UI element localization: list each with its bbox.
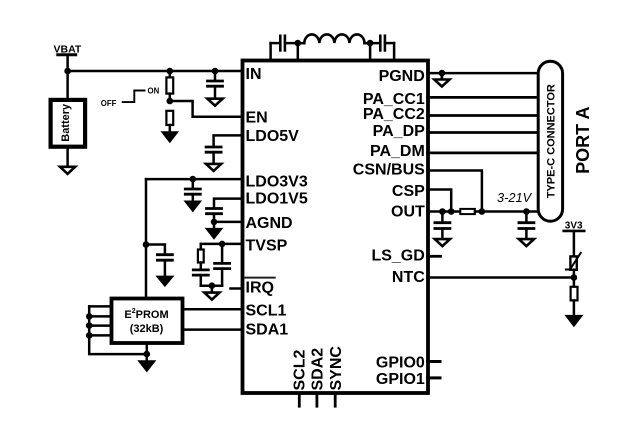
- wire C6 to bottom rail: [200, 275, 203, 286]
- ground (open) at PGND: [434, 80, 449, 87]
- resistor R2: [166, 111, 173, 125]
- ground (open) below battery: [60, 167, 75, 174]
- wire NTC body to junction: [573, 270, 576, 287]
- svg-text:TVSP: TVSP: [246, 237, 288, 254]
- svg-text:LDO1V5: LDO1V5: [246, 190, 308, 207]
- wire top stub left outer: [269, 43, 272, 60]
- ground (filled) below EEPROM: [138, 361, 155, 372]
- svg-text:AGND: AGND: [246, 215, 293, 232]
- wire top rail mid-left: [286, 42, 304, 45]
- wire R5 to ground: [573, 300, 576, 315]
- svg-text:(32kB): (32kB): [130, 323, 164, 335]
- svg-text:LDO5V: LDO5V: [246, 128, 300, 145]
- wire left vertical rail LDO3V3 to EEPROM: [145, 179, 148, 297]
- wire PGND ground stem: [440, 73, 443, 78]
- svg-text:LS_GD: LS_GD: [371, 247, 424, 264]
- wire NTC pin to thermistor: [428, 276, 574, 279]
- wire R3 to cap C6: [200, 263, 203, 269]
- wire R2 bottom to ground: [169, 125, 172, 131]
- wire C2 to ground: [212, 152, 215, 162]
- junction EEPROM tie 4: [86, 332, 93, 339]
- svg-text:OFF: OFF: [101, 99, 117, 108]
- junction AGND: [211, 219, 218, 226]
- ground (filled) below R5: [565, 315, 582, 326]
- wire TVSP bottom rail: [201, 284, 222, 287]
- svg-text:PORT A: PORT A: [573, 107, 593, 174]
- wire LDO1V5 pin to cap: [214, 199, 243, 208]
- capacitor C3 at LDO3V3: [185, 189, 200, 194]
- wire battery top to rail: [66, 71, 69, 98]
- junction LDO3V3 cap: [190, 176, 197, 183]
- wire EEPROM pin stub 3: [89, 324, 111, 327]
- wire EEPROM pin stub 4: [89, 334, 111, 337]
- capacitor C11 at OUT: [519, 223, 534, 229]
- wire SCL1: [183, 308, 243, 311]
- junction divider top at rail: [167, 68, 174, 75]
- wire TVSP ground stem: [211, 286, 214, 291]
- ground (open) below TVSP network: [204, 293, 219, 300]
- wire CSN/BUS to OUT rail: [428, 171, 482, 212]
- op-amp U1 main IC body: [243, 61, 429, 394]
- wire OUT cap1 stem: [441, 212, 444, 222]
- junction divider mid: [167, 98, 174, 105]
- ground (filled) at AGND: [206, 228, 223, 239]
- wire EEPROM pin stub 2: [89, 315, 111, 318]
- junction IN cap: [212, 68, 219, 75]
- ground (open) below C10: [435, 239, 450, 246]
- ground (filled) below C3: [185, 201, 202, 212]
- wire OUT rail right: [475, 210, 537, 213]
- svg-text:PA_DP: PA_DP: [373, 123, 425, 140]
- wire LDO3V3 cap stem: [192, 179, 195, 188]
- wire PA_DP: [428, 131, 538, 134]
- wire AGND stem: [213, 222, 216, 228]
- junction NTC: [571, 274, 578, 281]
- wire top stub left inner: [297, 43, 300, 60]
- junction VBAT: [64, 68, 71, 75]
- capacitor C5 at LDO1V5: [207, 209, 222, 214]
- ground (open) below C11: [519, 239, 534, 246]
- thermistor RT1 (NTC): [566, 253, 581, 270]
- wire top stub right inner: [369, 43, 372, 60]
- wire VBAT vertical to main rail: [66, 56, 69, 71]
- svg-text:ON: ON: [148, 87, 160, 96]
- wire C3 to ground: [192, 194, 195, 200]
- wire C11 to ground: [525, 229, 528, 238]
- svg-text:GPIO0: GPIO0: [376, 354, 425, 371]
- svg-text:EN: EN: [246, 110, 268, 127]
- wire R1 to junction: [169, 94, 172, 101]
- wire EEPROM left tie rail: [89, 306, 147, 354]
- wire EEPROM bottom pin: [146, 343, 149, 360]
- wire PGND to type-c: [428, 72, 538, 75]
- wire LDO5V pin to cap: [214, 135, 243, 146]
- wire TVSP right branch down: [221, 244, 224, 263]
- svg-text:TYPE-C CONNECTOR: TYPE-C CONNECTOR: [545, 84, 557, 198]
- capacitor C4: [157, 255, 172, 261]
- wire top rail left: [271, 42, 279, 45]
- svg-text:OUT: OUT: [391, 204, 425, 221]
- wire branch to cap C4: [146, 245, 165, 254]
- junction EEPROM tie 2: [86, 313, 93, 320]
- svg-text:IRQ: IRQ: [246, 280, 274, 297]
- wire PA_CC1: [428, 96, 538, 99]
- svg-text:SYNC: SYNC: [328, 346, 345, 391]
- wire rail to resistor R1: [169, 71, 172, 77]
- junction top left node: [295, 40, 302, 47]
- node 3V3 terminal: [564, 221, 585, 232]
- junction OUT cap2: [523, 208, 530, 215]
- wire OUT cap2 stem: [525, 212, 528, 222]
- svg-text:SDA1: SDA1: [246, 321, 289, 338]
- wire C1 to ground: [214, 86, 217, 97]
- junction EEPROM ground: [144, 351, 151, 358]
- svg-text:Battery: Battery: [60, 103, 72, 142]
- junction top right node: [367, 40, 374, 47]
- wire AGND pin: [214, 221, 243, 224]
- junction EEPROM tie 3: [86, 322, 93, 329]
- capacitor C8 series left: [280, 36, 285, 51]
- wire PA_CC2: [428, 114, 538, 117]
- type-c connector J1: [538, 61, 562, 221]
- junction CSN on OUT rail: [479, 208, 486, 215]
- ground (filled) below C4: [156, 276, 173, 286]
- wire EEPROM pin stub 1: [89, 305, 111, 308]
- wire SCL2 bottom stub: [298, 394, 301, 406]
- svg-text:IN: IN: [246, 66, 262, 83]
- wire PA_DM: [428, 151, 538, 154]
- capacitor C10 at OUT: [435, 223, 450, 229]
- junction TVSP bottom: [209, 282, 216, 289]
- svg-text:GPIO1: GPIO1: [376, 371, 425, 388]
- wire divider junction to EN pin: [170, 101, 243, 117]
- wire LDO3V3 pin to left rail: [146, 178, 243, 181]
- junction OUT cap1: [439, 208, 446, 215]
- wire top rail mid-right: [365, 42, 380, 45]
- junction TVSP: [219, 241, 226, 248]
- junction left rail branch: [143, 241, 150, 248]
- capacitor C9 series right: [380, 36, 385, 51]
- wire SDA2 bottom stub: [315, 394, 318, 406]
- svg-text:PGND: PGND: [379, 68, 425, 85]
- wire top stub right outer: [393, 43, 396, 60]
- node VBAT terminal: [54, 44, 82, 56]
- svg-text:NTC: NTC: [392, 269, 425, 286]
- resistor R5 below NTC: [571, 287, 578, 301]
- wire TVSP left branch down: [200, 244, 203, 250]
- wire SDA1: [183, 328, 243, 331]
- resistor R3 on TVSP: [198, 250, 204, 263]
- junction CSP on OUT rail: [448, 208, 455, 215]
- wire main VBAT rail to IN pin: [68, 70, 243, 73]
- capacitor C2 at LDO5V: [206, 147, 221, 152]
- svg-text:E2PROM: E2PROM: [124, 308, 168, 321]
- svg-text:CSN/BUS: CSN/BUS: [353, 162, 425, 179]
- switch S1 OFF/ON: [101, 87, 160, 108]
- pin label IRQ with overline: [246, 278, 275, 297]
- wire battery bottom to ground: [66, 149, 69, 166]
- wire SYNC bottom stub: [334, 394, 337, 406]
- svg-text:PA_CC2: PA_CC2: [363, 106, 425, 123]
- wire C4 to ground: [164, 260, 167, 276]
- wire TVSP pin rail: [201, 243, 243, 246]
- svg-text:CSP: CSP: [392, 183, 425, 200]
- wire GPIO0 stub: [428, 360, 441, 363]
- ground (open) below C2: [206, 164, 221, 171]
- eeprom U2: [112, 299, 183, 344]
- ground (open) below C1: [207, 99, 222, 106]
- svg-text:3-21V: 3-21V: [497, 190, 533, 205]
- svg-text:SCL1: SCL1: [246, 302, 287, 319]
- wire GPIO1 stub: [428, 376, 441, 379]
- inductor L1: [304, 34, 364, 43]
- wire IRQ stub: [231, 287, 243, 290]
- wire C5 to AGND wire: [213, 214, 216, 222]
- resistor R4 current sense: [460, 209, 475, 214]
- wire CSP to OUT rail: [428, 190, 452, 212]
- svg-text:SCL2: SCL2: [291, 350, 308, 391]
- wire LS_GD stub: [428, 255, 441, 258]
- capacitor C6: [193, 270, 208, 275]
- wire 3V3 to NTC thermistor: [573, 232, 576, 256]
- svg-text:SDA2: SDA2: [310, 348, 327, 391]
- svg-text:LDO3V3: LDO3V3: [246, 173, 308, 190]
- ground (filled) below R2: [162, 132, 179, 143]
- capacitor C1 at IN: [208, 81, 223, 86]
- capacitor C7: [215, 263, 230, 268]
- wire C10 to ground: [441, 229, 444, 238]
- junction PGND ground: [439, 70, 446, 77]
- wire OUT rail left: [428, 210, 461, 213]
- svg-text:PA_DM: PA_DM: [370, 143, 425, 160]
- wire top rail right: [386, 42, 394, 45]
- battery BT1: [51, 100, 86, 147]
- wire IN cap stem: [214, 71, 217, 80]
- resistor R1: [166, 77, 173, 93]
- wire C7 to bottom rail: [221, 269, 224, 286]
